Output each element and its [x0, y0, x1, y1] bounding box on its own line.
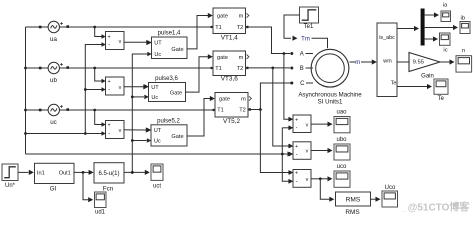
- svg-text:+: +: [108, 123, 111, 129]
- svg-text:Uco: Uco: [385, 185, 396, 191]
- svg-text:ua: ua: [50, 36, 57, 43]
- svg-text:6.5-u(1): 6.5-u(1): [98, 171, 119, 177]
- svg-text:Uc: Uc: [154, 139, 161, 145]
- svg-text:+: +: [295, 117, 298, 123]
- svg-text:ic: ic: [443, 47, 447, 53]
- svg-text:UT: UT: [151, 85, 159, 91]
- svg-text:uct: uct: [153, 183, 161, 189]
- svg-text:m: m: [239, 14, 244, 20]
- svg-text:RMS: RMS: [345, 209, 359, 216]
- svg-text:pulse3,6: pulse3,6: [155, 76, 178, 82]
- svg-text:ud1: ud1: [95, 209, 106, 215]
- svg-text:GI: GI: [50, 185, 57, 192]
- svg-text:-: -: [108, 42, 110, 48]
- svg-text:n: n: [462, 48, 465, 54]
- svg-text:gate: gate: [219, 97, 230, 103]
- svg-text:-: -: [108, 131, 110, 137]
- svg-text:Asynchronous Machine: Asynchronous Machine: [298, 92, 362, 99]
- svg-text:m: m: [355, 60, 360, 66]
- svg-text:SI Units1: SI Units1: [318, 99, 343, 106]
- svg-text:v: v: [306, 177, 309, 183]
- svg-text:Tm: Tm: [301, 36, 310, 42]
- svg-text:UT: UT: [154, 41, 162, 47]
- svg-text:T1: T1: [217, 108, 224, 114]
- svg-text:9.55: 9.55: [413, 59, 424, 65]
- svg-text:uco: uco: [337, 164, 347, 170]
- svg-text:Gate: Gate: [170, 90, 182, 96]
- svg-text:+: +: [108, 79, 111, 85]
- svg-text:...: ...: [401, 207, 407, 214]
- svg-text:pulse1,4: pulse1,4: [158, 31, 181, 37]
- svg-text:ub: ub: [50, 77, 57, 84]
- svg-text:v: v: [119, 85, 122, 91]
- svg-text:ib: ib: [461, 16, 466, 22]
- svg-text:gate: gate: [217, 55, 228, 61]
- svg-text:-: -: [108, 87, 110, 93]
- svg-text:wm: wm: [382, 58, 392, 64]
- svg-text:is_abc: is_abc: [379, 35, 395, 41]
- svg-text:Gain: Gain: [421, 73, 434, 79]
- svg-text:Gate: Gate: [171, 47, 183, 53]
- svg-text:-: -: [296, 179, 298, 185]
- svg-text:pulse5,2: pulse5,2: [157, 119, 180, 125]
- svg-text:v: v: [119, 39, 122, 45]
- svg-text:Out1: Out1: [59, 171, 71, 177]
- svg-text:v: v: [119, 128, 122, 134]
- svg-text:@51CTO博客: @51CTO博客: [408, 201, 471, 214]
- svg-text:UT: UT: [154, 128, 162, 134]
- svg-text:Gate: Gate: [171, 134, 183, 140]
- svg-text:VT5,2: VT5,2: [223, 118, 240, 125]
- svg-text:In1: In1: [37, 171, 45, 177]
- svg-text:Un*: Un*: [5, 183, 16, 189]
- svg-text:ia: ia: [443, 2, 448, 8]
- svg-text:Uc: Uc: [154, 52, 161, 58]
- svg-text:Uc: Uc: [151, 95, 158, 101]
- svg-text:T2: T2: [239, 108, 246, 114]
- svg-text:m: m: [239, 55, 244, 61]
- svg-text:B: B: [300, 66, 304, 72]
- svg-text:T2: T2: [237, 66, 244, 72]
- svg-text:m: m: [241, 97, 246, 103]
- svg-text:v: v: [306, 149, 309, 155]
- svg-text:uao: uao: [336, 110, 347, 116]
- svg-text:Te: Te: [438, 96, 445, 102]
- svg-text:v: v: [306, 122, 309, 128]
- svg-text:C: C: [300, 81, 305, 87]
- svg-text:A: A: [300, 52, 304, 58]
- svg-text:uc: uc: [50, 119, 57, 126]
- svg-text:T2: T2: [237, 25, 244, 31]
- svg-text:+: +: [295, 171, 298, 177]
- svg-text:gate: gate: [217, 14, 228, 20]
- svg-text:-: -: [296, 152, 298, 158]
- svg-text:ubo: ubo: [336, 137, 347, 143]
- svg-text:T1: T1: [215, 25, 222, 31]
- svg-text:Te1: Te1: [304, 24, 314, 30]
- svg-text:-: -: [296, 126, 298, 132]
- svg-text:+: +: [295, 144, 298, 150]
- svg-text:VT3,6: VT3,6: [221, 76, 238, 83]
- svg-text:T1: T1: [215, 66, 222, 72]
- svg-text:VT1,4: VT1,4: [221, 35, 238, 42]
- svg-text:Te: Te: [391, 80, 397, 86]
- svg-text:Fcn: Fcn: [103, 185, 114, 192]
- svg-text:RMS: RMS: [346, 197, 361, 204]
- svg-text:+: +: [108, 35, 111, 41]
